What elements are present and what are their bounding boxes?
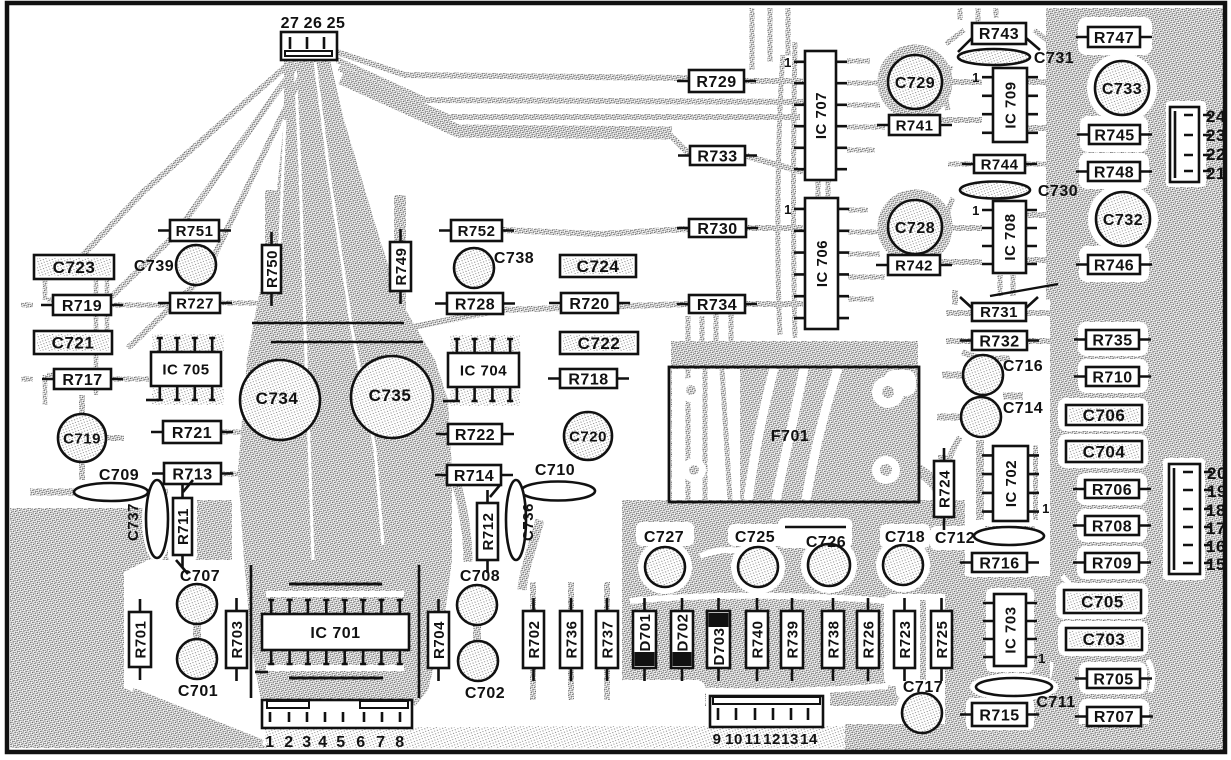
- capacitor C718: [883, 529, 925, 585]
- svg-text:R732: R732: [979, 333, 1019, 350]
- resistor R720: [549, 293, 630, 313]
- resistor R744: [962, 155, 1037, 173]
- wire R712 lead: [490, 485, 500, 497]
- capacitor C704: [1066, 441, 1142, 462]
- wire traces near IC709: [940, 82, 1080, 128]
- svg-text:11: 11: [745, 731, 762, 748]
- svg-text:R704: R704: [431, 621, 448, 659]
- resistor R727: [158, 293, 232, 313]
- svg-text:R747: R747: [1094, 30, 1134, 47]
- resistor R752: [439, 220, 514, 241]
- capacitor C722: [560, 332, 638, 354]
- wire right fan traces: [337, 52, 803, 81]
- resistor R714: [435, 465, 513, 485]
- svg-text:R741: R741: [896, 117, 934, 134]
- svg-text:R710: R710: [1092, 369, 1132, 386]
- copper pour right column: [1050, 300, 1145, 748]
- IC IC709: [972, 68, 1038, 142]
- connector pins 21-24: [1170, 107, 1226, 183]
- node white streaks in F701: [672, 368, 916, 500]
- resistor R712: [477, 490, 498, 573]
- svg-text:C732: C732: [1103, 212, 1143, 229]
- resistor R705: [1075, 669, 1152, 688]
- svg-text:1: 1: [972, 203, 980, 218]
- capacitor C725: [735, 529, 778, 587]
- capacitor C717: [902, 679, 943, 733]
- resistor R731: [960, 297, 1038, 321]
- wire traces IC705 pins: [152, 334, 224, 351]
- resistor R739: [781, 598, 803, 681]
- svg-text:R744: R744: [981, 156, 1019, 173]
- wire left fan traces: [80, 62, 303, 348]
- IC701 pin1 mark: [255, 671, 268, 674]
- svg-text:R709: R709: [1092, 555, 1132, 572]
- wire traces right of IC706: [848, 210, 888, 299]
- capacitor C726: [785, 527, 850, 586]
- copper pour F701 area: [671, 341, 918, 500]
- svg-text:C704: C704: [1083, 443, 1126, 462]
- capacitor C737: [125, 480, 168, 558]
- svg-text:R745: R745: [1094, 127, 1134, 144]
- resistor R708: [1073, 516, 1151, 535]
- resistor R718: [548, 369, 629, 388]
- svg-text:R743: R743: [979, 26, 1019, 43]
- svg-text:R736: R736: [563, 621, 580, 659]
- resistor R742: [876, 255, 952, 275]
- connector pins 1-8: [262, 700, 412, 751]
- svg-text:C726: C726: [806, 534, 846, 551]
- capacitor C719: [58, 414, 106, 462]
- capacitor C724: [560, 255, 636, 277]
- svg-text:C739: C739: [134, 258, 174, 275]
- resistor R749: [390, 229, 411, 304]
- resistor R722: [436, 424, 514, 444]
- svg-text:R707: R707: [1094, 709, 1134, 726]
- svg-text:C727: C727: [644, 529, 684, 546]
- svg-text:C714: C714: [1003, 400, 1043, 417]
- wire jumper lines: [252, 323, 423, 342]
- svg-text:R715: R715: [979, 707, 1019, 724]
- svg-text:IC 707: IC 707: [813, 92, 830, 139]
- capacitor C730: [960, 182, 1078, 201]
- svg-text:R717: R717: [62, 372, 102, 389]
- resistor R711: [173, 485, 192, 568]
- svg-text:C710: C710: [535, 462, 575, 479]
- svg-text:25: 25: [327, 15, 346, 32]
- svg-text:IC 709: IC 709: [1002, 81, 1019, 128]
- svg-text:IC 708: IC 708: [1002, 213, 1019, 260]
- resistor R703: [226, 598, 247, 681]
- resistor R736: [560, 598, 582, 681]
- svg-text:C708: C708: [460, 568, 500, 585]
- svg-text:C703: C703: [1083, 630, 1126, 649]
- capacitor C738: [454, 248, 534, 288]
- svg-text:1: 1: [265, 734, 274, 751]
- wire traces near IC708: [941, 215, 1080, 262]
- wire trace R749: [394, 195, 406, 335]
- resistor R750: [262, 232, 281, 306]
- resistor R721: [151, 421, 233, 443]
- svg-text:C723: C723: [53, 258, 96, 277]
- node white streaks around IC701: [266, 594, 404, 668]
- wire traces between IC707 IC706 rows: [778, 42, 828, 338]
- wire R711 leads: [176, 480, 193, 574]
- wire trace near R712: [452, 468, 468, 562]
- wire traces IC704 pins: [450, 335, 520, 352]
- svg-text:C730: C730: [1038, 183, 1078, 200]
- resistor R738: [822, 598, 844, 681]
- svg-text:26: 26: [304, 15, 323, 32]
- svg-text:R726: R726: [860, 621, 877, 659]
- wire trace right of F701: [918, 455, 944, 530]
- capacitor C733: [1095, 61, 1149, 115]
- capacitor C739: [134, 245, 216, 285]
- wire bars IC701: [289, 584, 383, 678]
- resistor R741: [877, 115, 952, 135]
- svg-text:IC 704: IC 704: [460, 362, 507, 379]
- copper pour top right: [1046, 8, 1225, 300]
- svg-text:8: 8: [395, 734, 404, 751]
- capacitor C720: [564, 412, 612, 460]
- IC IC704: [448, 339, 519, 401]
- svg-text:27: 27: [281, 15, 300, 32]
- IC IC703: [983, 594, 1037, 666]
- svg-text:R740: R740: [749, 621, 766, 659]
- svg-text:R731: R731: [980, 304, 1018, 321]
- svg-text:R742: R742: [895, 257, 933, 274]
- capacitor C732: [1096, 192, 1150, 246]
- svg-text:R752: R752: [458, 223, 496, 240]
- svg-text:R712: R712: [480, 513, 497, 551]
- capacitor C707: [177, 568, 220, 624]
- svg-text:C718: C718: [885, 529, 925, 546]
- svg-text:R738: R738: [825, 621, 842, 659]
- wire streaks through C707 C701: [197, 585, 477, 678]
- capacitor C702: [458, 641, 505, 702]
- resistor R710: [1074, 367, 1151, 386]
- wire white grooves in fan: [272, 62, 383, 560]
- svg-text:R714: R714: [454, 468, 494, 485]
- resistor R701: [129, 599, 151, 680]
- diode D701: [633, 598, 656, 681]
- svg-text:R703: R703: [229, 621, 246, 659]
- capacitor C703: [1066, 628, 1142, 650]
- svg-text:13: 13: [781, 731, 799, 748]
- wire traces below C714: [946, 437, 960, 470]
- wire gray ring C728: [882, 194, 948, 260]
- capacitor C705: [1064, 590, 1141, 613]
- copper pour right lower zone: [945, 576, 1050, 750]
- wire left column trace: [45, 260, 107, 405]
- capacitor C711: [976, 678, 1076, 711]
- svg-text:R711: R711: [175, 508, 192, 545]
- svg-text:R720: R720: [569, 296, 609, 313]
- wire traces around R731 R732: [946, 290, 1056, 359]
- connector pins 9-14: [710, 696, 823, 748]
- wire traces left component links: [21, 303, 258, 474]
- svg-text:C701: C701: [178, 683, 218, 700]
- svg-text:R746: R746: [1094, 257, 1134, 274]
- svg-text:C728: C728: [895, 220, 935, 237]
- resistor R713: [152, 463, 233, 484]
- wire trace to R734: [398, 304, 803, 330]
- svg-text:C709: C709: [99, 467, 139, 484]
- copper pour central trace fan: [238, 60, 452, 706]
- svg-text:3: 3: [302, 734, 311, 751]
- svg-text:IC 703: IC 703: [1002, 606, 1019, 653]
- capacitor C716: [963, 355, 1043, 395]
- svg-text:6: 6: [356, 734, 365, 751]
- resistor R723: [894, 598, 915, 681]
- svg-text:F701: F701: [771, 428, 809, 445]
- svg-text:R730: R730: [697, 221, 737, 238]
- wire trace between R723 R725: [920, 600, 926, 680]
- diode D703: [707, 598, 730, 681]
- wire hatch under connector1: [265, 727, 505, 748]
- resistor R734: [677, 295, 757, 314]
- svg-text:R750: R750: [264, 250, 281, 288]
- wire line above R731: [990, 284, 1058, 296]
- connector pins 25-27: [281, 15, 346, 60]
- capacitor C701: [177, 639, 218, 700]
- svg-text:C702: C702: [465, 685, 505, 702]
- resistor R730: [677, 219, 758, 238]
- svg-text:R751: R751: [176, 223, 214, 240]
- svg-text:R716: R716: [979, 555, 1019, 572]
- svg-text:D702: D702: [674, 614, 691, 652]
- capacitor C731: [958, 49, 1074, 67]
- svg-text:10: 10: [725, 731, 743, 748]
- capacitor C727: [644, 529, 685, 587]
- copper pour bottom left block: [10, 500, 270, 748]
- IC IC706: [784, 198, 849, 329]
- svg-text:D701: D701: [637, 614, 654, 652]
- capacitor C736: [506, 480, 537, 560]
- svg-text:7: 7: [376, 734, 385, 751]
- svg-text:R721: R721: [172, 425, 212, 442]
- svg-text:R737: R737: [599, 621, 616, 659]
- svg-text:C720: C720: [569, 428, 607, 445]
- IC IC707: [784, 51, 847, 180]
- capacitor C721: [34, 331, 112, 354]
- svg-text:1: 1: [784, 55, 792, 70]
- capacitor C709: [74, 467, 148, 501]
- svg-text:C712: C712: [935, 530, 975, 547]
- svg-text:C725: C725: [735, 529, 775, 546]
- resistor R716: [960, 553, 1039, 572]
- svg-text:IC 706: IC 706: [814, 240, 831, 287]
- capacitor C735: [351, 356, 433, 438]
- node pockets bottom left: [70, 476, 197, 562]
- IC704 pin1 mark: [443, 400, 455, 403]
- capacitor C708: [457, 568, 500, 625]
- wire traces near R743 C731: [946, 8, 1052, 296]
- svg-text:2: 2: [284, 734, 293, 751]
- svg-text:R749: R749: [393, 248, 410, 286]
- wire trace R750: [265, 190, 277, 330]
- svg-text:C729: C729: [895, 75, 935, 92]
- svg-text:IC 702: IC 702: [1003, 460, 1020, 507]
- resistor R709: [1073, 553, 1151, 572]
- resistor R740: [746, 598, 768, 681]
- svg-text:C706: C706: [1083, 406, 1126, 425]
- resistor R729: [677, 70, 756, 92]
- resistor R743: [958, 23, 1040, 52]
- svg-text:R735: R735: [1092, 332, 1132, 349]
- svg-text:IC 701: IC 701: [310, 625, 360, 642]
- resistor R707: [1075, 707, 1153, 726]
- svg-text:C737: C737: [125, 503, 142, 541]
- svg-text:R748: R748: [1094, 164, 1134, 181]
- svg-text:4: 4: [318, 734, 327, 751]
- wire traces lower left row: [533, 582, 607, 700]
- resistor R747: [1076, 27, 1152, 47]
- svg-text:R708: R708: [1092, 518, 1132, 535]
- resistor R751: [158, 220, 231, 241]
- svg-text:C722: C722: [578, 334, 621, 353]
- IC IC702: [982, 446, 1039, 521]
- svg-text:R702: R702: [526, 621, 543, 659]
- svg-text:1: 1: [1042, 501, 1050, 516]
- svg-text:R729: R729: [696, 74, 736, 91]
- capacitor C728: [888, 200, 942, 254]
- capacitor C734: [240, 360, 320, 440]
- svg-text:R728: R728: [455, 296, 495, 313]
- resistor R715: [960, 703, 1039, 726]
- IC IC708: [972, 201, 1037, 273]
- svg-text:R722: R722: [455, 427, 495, 444]
- connector pins 15-20: [1169, 464, 1227, 574]
- wire traces right of IC707: [847, 61, 888, 150]
- svg-text:C724: C724: [577, 257, 620, 276]
- svg-text:12: 12: [763, 731, 781, 748]
- resistor R745: [1077, 125, 1152, 144]
- resistor R704: [428, 599, 449, 681]
- copper pour right edge strip: [1145, 300, 1225, 748]
- IC705 pin1 mark: [146, 399, 158, 402]
- svg-text:R718: R718: [568, 371, 608, 388]
- resistor R725: [931, 598, 952, 681]
- wire vertical rails IC701: [251, 565, 419, 698]
- svg-text:C731: C731: [1034, 50, 1074, 67]
- resistor R702: [523, 598, 544, 681]
- resistor R724: [934, 448, 954, 530]
- capacitor C710: [521, 462, 595, 501]
- wire gray ring C729: [882, 49, 948, 115]
- capacitor C712: [935, 527, 1044, 547]
- resistor R735: [1074, 330, 1151, 349]
- capacitor C729: [888, 55, 942, 109]
- wire feeds into F701 top: [688, 312, 731, 360]
- resistor R719: [41, 295, 123, 315]
- wire traces around C719: [82, 395, 124, 480]
- svg-text:C719: C719: [63, 430, 101, 447]
- svg-text:R739: R739: [784, 621, 801, 659]
- svg-text:C733: C733: [1102, 81, 1142, 98]
- svg-text:C735: C735: [369, 386, 412, 405]
- svg-text:R734: R734: [697, 297, 737, 314]
- svg-text:C711: C711: [1036, 694, 1075, 711]
- node pockets lower middle: [617, 518, 976, 750]
- capacitor C723: [34, 255, 114, 279]
- resistor R706: [1073, 480, 1151, 499]
- svg-text:1: 1: [784, 202, 792, 217]
- svg-text:C734: C734: [256, 389, 299, 408]
- node pockets right column: [1056, 17, 1206, 733]
- resistor R732: [960, 331, 1039, 350]
- svg-text:9: 9: [713, 731, 722, 748]
- svg-text:C716: C716: [1003, 358, 1043, 375]
- resistor R728: [435, 293, 515, 314]
- capacitor C706: [1066, 405, 1142, 425]
- svg-text:C705: C705: [1081, 593, 1124, 612]
- svg-text:R701: R701: [132, 621, 149, 659]
- svg-text:1: 1: [972, 70, 980, 85]
- svg-text:R723: R723: [897, 621, 914, 659]
- resistor R748: [1076, 162, 1152, 181]
- wire traces around IC702: [980, 440, 1035, 530]
- wire trace C709: [30, 489, 168, 496]
- wire top edge feeds: [752, 8, 788, 70]
- resistor R726: [857, 598, 879, 681]
- fuse F701: [669, 367, 919, 502]
- copper pour lower middle: [622, 500, 965, 706]
- resistor R746: [1076, 255, 1152, 274]
- svg-text:C721: C721: [52, 334, 95, 353]
- resistor R717: [42, 369, 123, 389]
- svg-text:14: 14: [800, 731, 818, 748]
- svg-text:R706: R706: [1092, 482, 1132, 499]
- resistor R733: [678, 146, 757, 165]
- node white streaks resistor row: [630, 550, 888, 691]
- diode D702: [671, 598, 693, 681]
- svg-text:R727: R727: [176, 295, 214, 312]
- copper pour bottom strip: [505, 726, 845, 748]
- svg-text:R724: R724: [936, 470, 953, 508]
- capacitor C714: [961, 397, 1043, 437]
- node white streaks right lower: [1040, 576, 1153, 692]
- svg-text:IC 705: IC 705: [162, 361, 209, 378]
- svg-text:D703: D703: [711, 628, 728, 666]
- wire traces near C716 C714: [937, 375, 1023, 417]
- svg-text:R719: R719: [62, 298, 102, 315]
- svg-text:C736: C736: [520, 503, 537, 541]
- svg-text:C707: C707: [180, 568, 220, 585]
- IC IC701: [262, 600, 409, 664]
- svg-text:C717: C717: [903, 679, 943, 696]
- svg-text:1: 1: [1038, 651, 1046, 666]
- svg-text:5: 5: [336, 734, 345, 751]
- wire trace to R733: [668, 133, 803, 172]
- svg-text:R733: R733: [697, 148, 737, 165]
- resistor R737: [596, 598, 618, 681]
- svg-text:R705: R705: [1093, 671, 1133, 688]
- wire trace R752 to R730: [502, 228, 803, 234]
- svg-text:R725: R725: [934, 621, 951, 659]
- wire diagonal to connector1: [132, 692, 262, 744]
- IC IC705: [151, 338, 221, 400]
- svg-text:C738: C738: [494, 250, 534, 267]
